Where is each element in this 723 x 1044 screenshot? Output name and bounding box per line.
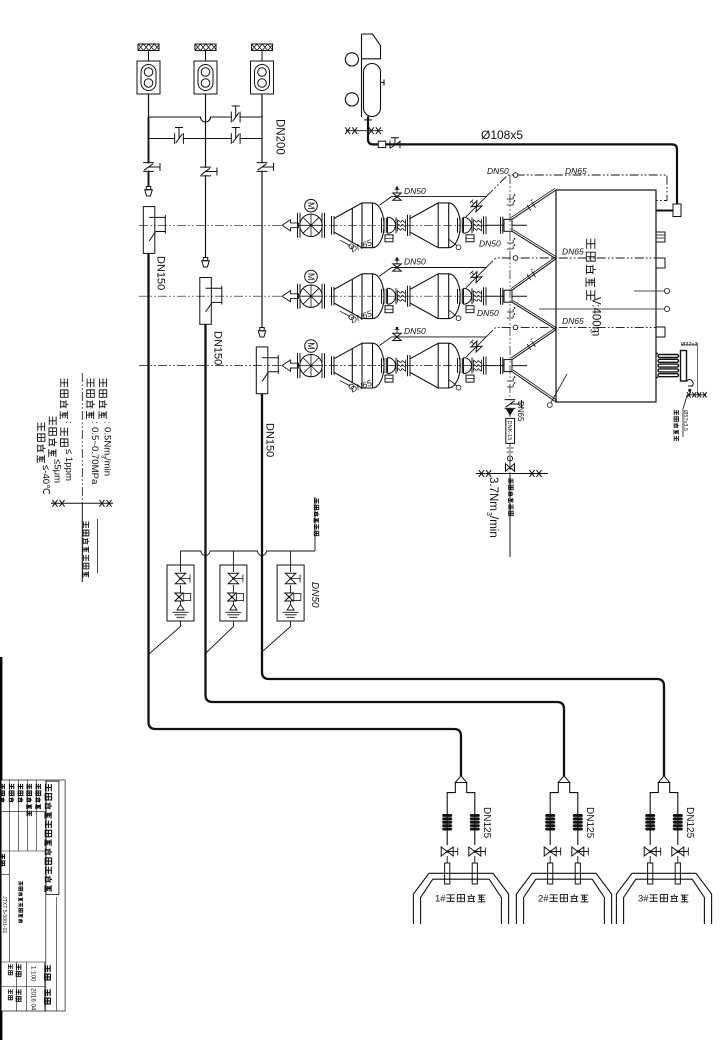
purge box 3 drain line <box>263 621 291 651</box>
svg-text:M: M <box>306 342 316 350</box>
svg-text:DN65: DN65 <box>562 316 584 326</box>
label DN150 line2 <box>212 331 224 365</box>
label DN65 train 3 <box>349 378 373 395</box>
flange pair train 1 feeder outlet <box>332 216 335 235</box>
dome valve B train 2 <box>458 288 475 313</box>
boiler 1 flex hose <box>470 814 480 817</box>
boiler 1 feed valve <box>441 847 453 856</box>
svg-text:DN125: DN125 <box>584 807 595 839</box>
svg-text:≤5μm: ≤5μm <box>51 459 62 483</box>
boiler 1 flex hose <box>442 814 452 817</box>
roots blower B1 body <box>137 51 160 95</box>
flange pair train 3 feeder outlet <box>332 356 335 375</box>
boiler 3 DN125 label <box>684 807 695 839</box>
gate valve on header A <box>232 112 239 123</box>
svg-text:2#: 2# <box>538 894 549 905</box>
svg-text:DN50: DN50 <box>404 326 426 336</box>
axis tick fitting <box>507 309 513 312</box>
tag circle vessel B train 3 <box>449 380 457 387</box>
purge box 1 stub top <box>180 551 182 605</box>
silo level indicator 2 <box>539 308 665 310</box>
rotary feeder train 1 <box>298 213 325 238</box>
gate valve on blower line 2 <box>200 168 211 175</box>
bellows B train 3 <box>474 360 482 372</box>
unloading valve <box>390 138 400 149</box>
conveying vessel B train 2 <box>410 274 460 319</box>
svg-text:DN65: DN65 <box>562 247 584 257</box>
svg-text:2016.04: 2016.04 <box>29 988 36 1011</box>
flange pair train 2 feeder outlet <box>332 287 335 306</box>
svg-text:Ø32x3: Ø32x3 <box>681 342 697 348</box>
DN50 aeration branch train 2 <box>380 268 487 277</box>
check tee assembly line 1 <box>143 207 155 254</box>
tag circle DN65 train 1 <box>340 240 350 245</box>
axis tick fitting <box>507 315 513 318</box>
dome valve A train 1 <box>382 217 397 242</box>
motor M train 3 <box>305 340 318 353</box>
svg-text:DN150: DN150 <box>212 331 224 365</box>
riser valve train 3 (45deg) <box>469 339 482 352</box>
dome valve B train 1 <box>458 217 475 242</box>
DN50 aeration branch train 1 <box>380 197 487 206</box>
gate valve on blower line 1 <box>143 163 154 170</box>
rotary feeder train 3 <box>298 353 325 378</box>
axis tick fitting <box>507 378 513 381</box>
silo inlet nozzle 2 <box>504 290 512 302</box>
silo drain tag <box>551 374 567 403</box>
purge box 1 muffler <box>173 605 189 618</box>
silo body <box>556 190 656 402</box>
svg-text:M: M <box>306 202 316 210</box>
axis tick fitting <box>507 246 513 249</box>
label DN50 purge <box>309 582 320 608</box>
svg-text:DN125: DN125 <box>684 807 695 839</box>
conveying vessel A train 3 <box>334 343 384 388</box>
svg-text:≤-40℃: ≤-40℃ <box>40 465 51 495</box>
axis tick fitting <box>507 240 513 243</box>
label 3.7Nm3/min <box>487 477 499 511</box>
svg-text:/min: /min <box>102 458 113 476</box>
riser DN50 train 3 <box>466 337 487 358</box>
purge box 1 regulator <box>175 593 183 601</box>
bellows B train 1 <box>474 219 482 231</box>
motor M train 1 <box>305 199 318 212</box>
purge box 1 drain line <box>149 621 181 654</box>
fill pipe silo inlet fitting <box>673 204 681 217</box>
roots blower B1 inlet filter (hatched) <box>138 44 160 51</box>
svg-text:DN50: DN50 <box>309 582 320 608</box>
train 1 centerline <box>139 224 512 226</box>
label DN65 axis <box>516 401 525 422</box>
riser valve train 1 (45deg) <box>469 198 482 211</box>
bellows A train 2 <box>398 290 406 302</box>
flange pair train 3 mid <box>408 355 411 376</box>
gate valve on blower line 3 <box>257 163 268 170</box>
svg-text::: : <box>89 421 100 424</box>
train 2 discharge arrow <box>282 291 299 302</box>
dome valve A train 2 <box>382 288 397 313</box>
svg-text:DN150: DN150 <box>264 423 276 457</box>
valve on axis <box>505 400 516 407</box>
purge box 2 stub top <box>232 551 234 605</box>
boiler 3 furnace outline <box>616 873 711 924</box>
purge valve box 1 <box>167 565 194 621</box>
roots blower B3 inlet filter (hatched) <box>252 44 274 51</box>
purge box 1 globe valve <box>175 573 185 583</box>
svg-text:DN50: DN50 <box>404 186 426 196</box>
svg-text:JTXT 5-5001-01: JTXT 5-5001-01 <box>1 896 7 934</box>
check valve on axis <box>507 410 513 416</box>
silo inlet nozzle 3 <box>504 360 512 372</box>
svg-text:1:100: 1:100 <box>29 966 36 982</box>
pipe: manifold header B (y=138.5) <box>149 138 263 140</box>
svg-text:0.5~0.70MPa: 0.5~0.70MPa <box>89 427 100 485</box>
motor M train 2 <box>305 270 318 283</box>
purge box 2 drain line <box>206 621 233 653</box>
gate valve on header B right <box>232 133 239 144</box>
junction circle header 3 <box>513 325 518 330</box>
purge box 3 regulator <box>285 593 293 601</box>
svg-text:DN200: DN200 <box>274 119 286 155</box>
svg-text:0.5Nm: 0.5Nm <box>102 427 113 455</box>
truck coupling line <box>346 130 383 132</box>
svg-text:1#: 1# <box>435 894 446 905</box>
bellows A train 3 <box>398 360 406 372</box>
flow component DNK-15 <box>506 418 515 443</box>
boiler 3 flex hose <box>673 814 683 817</box>
silo vent filter louvers <box>656 351 687 382</box>
gate valve on header B left <box>175 133 182 144</box>
silo wall fitting 2 <box>656 258 665 268</box>
purge box 3 globe valve <box>285 573 295 583</box>
check tee assembly line 2 <box>200 278 212 325</box>
bellows A train 1 <box>398 219 406 231</box>
boiler 3 feed valve <box>672 847 684 856</box>
roots blower B3 body <box>251 51 274 95</box>
conveying vessel B train 1 <box>410 203 460 248</box>
branch valve train 3 <box>393 333 401 340</box>
pipe DN150 main 3 to boiler 3 <box>262 394 664 776</box>
purge box 3 muffler <box>283 605 299 618</box>
boiler 3 wall sleeve <box>649 856 651 863</box>
tag circle DN65 train 3 <box>340 381 350 386</box>
axis circle fitting <box>507 456 512 461</box>
boiler 2 flex hose <box>573 814 583 817</box>
flange pair train 1 mid <box>408 215 411 236</box>
boiler 1 DN125 label <box>481 807 492 839</box>
DN50 aeration branch train 3 <box>380 337 487 346</box>
roots blower B2 body <box>194 51 217 95</box>
drawing title <box>19 881 22 885</box>
return header train 1 (DN65 to silo top) <box>487 175 668 201</box>
conveying vessel B train 3 <box>410 343 460 388</box>
title block bottom rows <box>1 897 56 1011</box>
pipe: manifold header A (y=117) <box>149 117 263 122</box>
svg-text:/min: /min <box>487 516 499 538</box>
dome valve A train 3 <box>382 358 397 383</box>
train 3 discharge arrow <box>282 360 299 371</box>
svg-text:Ø57x3.5: Ø57x3.5 <box>682 410 688 431</box>
boiler 1 wall sleeve <box>474 856 476 863</box>
purge box 2 regulator <box>228 593 236 601</box>
cone wall aeration ticks <box>526 269 537 280</box>
riser DN50 train 2 <box>466 267 487 288</box>
label phi57x3.5 <box>682 410 688 431</box>
bellows B train 2 <box>474 290 482 302</box>
tag circle DN65 train 2 <box>340 311 350 316</box>
svg-text:DN50: DN50 <box>487 166 509 176</box>
conveying vessel A train 2 <box>334 274 384 319</box>
silo inlet nozzle 1 <box>504 219 512 231</box>
train 3 centerline <box>139 365 512 367</box>
svg-text:DN50: DN50 <box>479 239 501 249</box>
svg-text:DN150: DN150 <box>155 256 167 290</box>
purge box 3 stub top <box>290 551 292 605</box>
dome valve B train 3 <box>458 358 475 383</box>
reducer cone on line 2 <box>203 258 207 261</box>
label DN150 line3 <box>264 423 276 457</box>
drawing number cell <box>1 851 46 962</box>
title block header rows <box>1 780 46 851</box>
junction circle header 1 <box>513 173 518 178</box>
boiler 3 wall sleeve <box>677 856 679 863</box>
boiler 2 feed valve <box>572 847 584 856</box>
label laiziyasuokongqi header <box>314 498 318 503</box>
boiler 1 furnace outline <box>413 873 508 924</box>
flange pair train 2 mid <box>408 286 411 307</box>
silo axis line x=510 <box>509 175 511 400</box>
boiler 2 wall sleeve <box>577 856 579 863</box>
purge box 2 globe valve <box>228 573 238 583</box>
silo wall fitting 3 <box>656 327 665 337</box>
company name box <box>46 781 59 894</box>
svg-text:M: M <box>306 273 316 281</box>
reducer cone on line 3 <box>260 328 264 331</box>
svg-text:DN50: DN50 <box>477 308 499 318</box>
axis bowtie valve <box>506 464 515 472</box>
return header train 2 <box>487 258 657 267</box>
spec text block <box>100 379 107 388</box>
label DN150 line1 <box>155 256 167 290</box>
pipe DN150 main 2 to boiler 2 <box>206 324 565 776</box>
flange pair train 1 silo side <box>484 216 505 234</box>
svg-text:3.7Nm: 3.7Nm <box>487 477 499 511</box>
svg-text::: : <box>102 421 113 424</box>
cone wall aeration ticks <box>526 200 537 211</box>
axis tick fitting <box>507 202 513 205</box>
sheet border bar <box>0 657 2 1040</box>
conveying vessel A train 1 <box>334 203 384 248</box>
axis fitting ticks <box>507 448 514 452</box>
riser DN50 train 1 <box>466 196 487 217</box>
svg-text:DN125: DN125 <box>481 807 492 839</box>
silo hopper cones (left wall, double) <box>512 190 556 402</box>
truck discharge coupling <box>364 119 372 121</box>
boiler 2 furnace outline <box>516 873 611 924</box>
rotary feeder train 2 <box>298 284 325 309</box>
label to instrument air <box>83 521 88 528</box>
boiler 2 flex hose <box>545 814 555 817</box>
boiler 3 wye splitter <box>658 776 669 783</box>
flange pair train 2 silo side <box>484 287 505 305</box>
svg-text:3: 3 <box>588 329 595 333</box>
drain trap <box>687 380 694 387</box>
flange pair train 3 silo side <box>484 357 505 375</box>
axis tick fitting <box>507 384 513 387</box>
boiler 1 wall sleeve <box>446 856 448 863</box>
silo fluidize line down <box>509 400 511 474</box>
pipe DN150 main 1 to boiler 1 <box>149 253 462 776</box>
boiler 2 wye splitter <box>558 776 569 783</box>
fill pipe phi108x5 <box>368 116 677 204</box>
purge valve box 2 <box>220 565 247 621</box>
junction circle header 2 <box>513 256 518 261</box>
label DN65 train 2 <box>349 308 373 325</box>
train 1 discharge arrow <box>282 220 299 231</box>
svg-text:DN65: DN65 <box>516 401 525 422</box>
label DN200 <box>274 119 286 155</box>
purge box 2 muffler <box>225 605 241 618</box>
tag circle vessel B train 2 <box>449 310 457 317</box>
boiler 1 wye splitter <box>455 776 466 783</box>
svg-text:DNK-15: DNK-15 <box>506 421 512 441</box>
train 2 centerline <box>139 295 512 297</box>
blow line <box>683 392 706 437</box>
pipe: blower drop lines <box>149 94 263 328</box>
svg-text:DN65: DN65 <box>565 166 587 176</box>
silo label <box>587 239 595 249</box>
purge air header <box>181 497 316 556</box>
silo level indicator 1 <box>634 290 665 292</box>
svg-text:≤ 1ppm: ≤ 1ppm <box>63 449 74 481</box>
silo wall fitting 1 <box>656 232 665 242</box>
svg-text:Ø108x5: Ø108x5 <box>481 128 523 142</box>
instrument air line <box>81 373 83 503</box>
roots blower B2 inlet filter (hatched) <box>195 44 217 51</box>
tanker truck <box>345 34 384 117</box>
check tee assembly line 3 <box>256 347 268 394</box>
boiler 1 feed valve <box>469 847 481 856</box>
label DN65 train 1 <box>349 237 373 254</box>
purge valve box 3 <box>277 565 304 621</box>
reducer cone on line 1 <box>146 187 150 190</box>
boiler 2 DN125 label <box>584 807 595 839</box>
cone wall aeration ticks <box>526 339 537 350</box>
label laiziyasuokongqi right <box>509 478 513 483</box>
boiler 2 wall sleeve <box>549 856 551 863</box>
boiler 3 flex hose <box>645 814 655 817</box>
return header train 3 <box>487 327 657 336</box>
compressed air line (3.7Nm3/min) <box>476 474 548 558</box>
branch valve train 2 <box>393 264 401 271</box>
branch valve train 1 <box>393 193 401 200</box>
hose piece <box>378 141 385 147</box>
title block <box>1 780 65 1011</box>
boiler 3 feed valve <box>644 847 656 856</box>
svg-text::: : <box>63 421 74 424</box>
tag circle vessel B train 1 <box>449 239 457 246</box>
axis tick fitting <box>507 196 513 199</box>
svg-text:3#: 3# <box>638 894 649 905</box>
vent filter dimension line <box>681 343 697 395</box>
riser valve train 2 (45deg) <box>469 269 482 282</box>
svg-text:DN50: DN50 <box>404 257 426 267</box>
boiler 2 feed valve <box>544 847 556 856</box>
